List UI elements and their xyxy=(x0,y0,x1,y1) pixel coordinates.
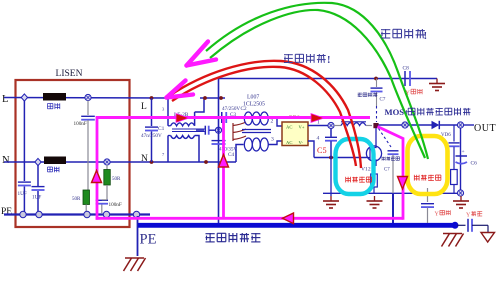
label PE (ground lead) xyxy=(140,232,157,248)
svg-text:C7: C7 xyxy=(380,98,386,103)
terminal label L (mains) xyxy=(2,94,8,105)
dashed line drain to C7 xyxy=(379,129,392,148)
red inductive-coupling curve 1 xyxy=(169,61,361,168)
label OUT xyxy=(474,123,496,134)
magenta arrow upper (to filter) xyxy=(187,42,217,66)
vertical PE wire x218 xyxy=(218,79,220,225)
parasitic inductor in +rail xyxy=(334,122,372,126)
magenta noise path right vertical xyxy=(378,127,404,220)
wire to diode xyxy=(408,124,432,126)
wire bridge V+ out xyxy=(308,120,328,126)
reference ground plate (thick blue bar) xyxy=(138,222,459,229)
capacitor C1 across L-N xyxy=(141,98,165,162)
cyan highlight ellipse (inductive coupling zone) xyxy=(336,139,374,194)
outlined up-arrow on LISN vertical xyxy=(92,171,102,183)
magenta noise path bottom rail xyxy=(96,217,403,220)
label 47/250V C2 xyxy=(222,106,247,112)
choke LF-2B core xyxy=(172,129,205,132)
wire L007 pin2 to bridge xyxy=(268,118,281,126)
svg-text:OUT: OUT xyxy=(474,123,496,134)
svg-text:V12: V12 xyxy=(361,167,371,173)
resistor 50R (L branch, green) xyxy=(72,120,90,213)
label L007 xyxy=(247,95,259,101)
load resistor xyxy=(451,170,458,194)
wire to OUT xyxy=(464,124,474,126)
junction dot C5 bottom xyxy=(329,156,333,160)
wire choke bottom right to N rail xyxy=(195,136,199,163)
wire DC- rail y157 xyxy=(314,157,367,159)
svg-text:PE: PE xyxy=(140,232,157,248)
earth triangle symbol xyxy=(481,233,495,243)
wire C5 node down to ground xyxy=(330,158,332,197)
external Y-capacitor xyxy=(468,219,488,232)
label 电容耦合 (red, in yellow zone) xyxy=(414,175,441,181)
node X bottom out xyxy=(457,190,463,196)
label 感性耦合! xyxy=(284,54,331,66)
label Y电容 (bottom left) xyxy=(435,210,451,217)
svg-text:L007: L007 xyxy=(247,95,259,101)
terminal label N (mains) xyxy=(2,155,10,166)
junction dot C1-L xyxy=(150,96,154,100)
label MOS+散热器分布电容 xyxy=(385,107,471,117)
PE rail node 4 xyxy=(103,211,109,217)
svg-text:!: ! xyxy=(424,30,428,42)
output cap branch xyxy=(449,125,460,170)
wire PE drop to earth xyxy=(137,216,139,256)
output ground symbol xyxy=(453,196,469,208)
svg-text:L: L xyxy=(141,102,147,112)
junction dot C1-N xyxy=(150,160,154,164)
diode VD6 xyxy=(432,121,458,129)
PE rail node 5 (outside box) xyxy=(133,211,139,217)
magenta arrow lower (to L input) xyxy=(167,81,194,98)
red inductive-coupling curve 2 xyxy=(172,67,356,166)
wire top-rail y118 under magenta xyxy=(204,117,243,119)
capacitor 1UF from N xyxy=(32,165,45,213)
svg-text:+: + xyxy=(462,149,465,155)
label BD6 xyxy=(289,115,300,121)
wire plate to external Y-cap xyxy=(457,224,466,226)
svg-text:V+: V+ xyxy=(299,125,305,130)
choke LF-2B bottom winding xyxy=(168,136,195,139)
resistor 50R (N branch, green) xyxy=(104,165,121,185)
node junction L rail mid xyxy=(85,94,91,100)
label 电感耦合 (red, in cyan zone) xyxy=(346,177,372,183)
terminal label PE (mains) xyxy=(1,207,12,217)
MOSFET V12 xyxy=(366,128,381,166)
choke L007 bottom winding xyxy=(244,138,268,151)
wire drain node to right node xyxy=(379,124,403,126)
choke LF-2B top winding xyxy=(168,123,195,126)
magenta noise path top rail xyxy=(97,116,370,119)
inductor 高阻 N-line (black box) xyxy=(44,157,66,173)
junction dot L rail x204 xyxy=(203,96,207,100)
earth ground symbol (PE) xyxy=(124,258,146,271)
label 参考接地板 xyxy=(206,233,261,242)
capacitor C2 series small xyxy=(196,126,216,135)
capacitor 1UF from L xyxy=(18,101,31,213)
bridge pin labels AC V+ AC V- xyxy=(286,125,305,146)
svg-text:Y: Y xyxy=(466,213,471,219)
drain node (dark red square) xyxy=(373,123,378,128)
svg-text:C4: C4 xyxy=(228,152,234,158)
svg-text:100nF: 100nF xyxy=(74,121,87,127)
svg-text:N: N xyxy=(141,154,148,164)
yellow highlight ellipse (capacitive coupling zone) xyxy=(408,136,448,194)
svg-text:V-: V- xyxy=(299,140,304,145)
svg-text:N: N xyxy=(2,155,10,166)
label Y电容 (bottom right) xyxy=(466,211,482,218)
electrolytic C6 xyxy=(456,149,478,167)
primary ground symbol xyxy=(367,196,383,208)
label N (PSU input) xyxy=(141,152,165,164)
svg-text:MOS+: MOS+ xyxy=(385,107,410,117)
wire PE rail xyxy=(4,213,150,215)
node X drain-right (405,124.5) xyxy=(402,122,408,128)
output vertical xyxy=(460,128,462,190)
label Y电容 (top) xyxy=(406,89,423,97)
svg-text:100nF: 100nF xyxy=(109,202,122,208)
wire L007 pin3 to bridge xyxy=(268,141,281,145)
junction dot N rail x206 xyxy=(204,160,208,164)
svg-text:LISEN: LISEN xyxy=(56,69,83,79)
green capacitive-coupling curve 2 xyxy=(210,10,425,158)
wire L007 bottom left to N xyxy=(236,145,244,163)
svg-text:47n/250V: 47n/250V xyxy=(141,133,162,139)
junction dot L rail x218 xyxy=(219,96,223,100)
inductor 高阻 L-line (black box) xyxy=(43,93,66,109)
svg-text:Y: Y xyxy=(435,212,440,218)
svg-text:C8: C8 xyxy=(403,66,410,72)
capacitor C3 series on y118 line xyxy=(222,112,237,123)
magenta noise path left vertical xyxy=(96,116,99,220)
node X at (218.5,130) xyxy=(215,127,221,133)
capacitor 100nF (N branch) xyxy=(96,185,122,213)
junction dot top line xyxy=(374,77,378,81)
red arrow right on magenta rail 2 xyxy=(311,114,324,123)
pin 2 label xyxy=(271,119,274,125)
wire N terminal rise to choke xyxy=(167,136,169,163)
svg-text:3: 3 xyxy=(271,137,274,143)
magenta noise path mid vertical xyxy=(222,118,225,219)
LISN enclosure box xyxy=(16,80,130,227)
svg-text:L: L xyxy=(2,94,8,105)
top-right ground symbol xyxy=(429,79,445,91)
svg-text:1UF: 1UF xyxy=(18,191,27,197)
label VD6 xyxy=(441,133,451,138)
capacitor C7 (MOS-heatsink) xyxy=(382,151,400,225)
node on N rail for 50R branch xyxy=(104,159,110,165)
svg-text:AC: AC xyxy=(286,140,292,145)
svg-text:50R: 50R xyxy=(112,177,121,182)
svg-text:C1: C1 xyxy=(158,126,165,132)
pin 3 label xyxy=(271,137,274,143)
common-mode choke LF-2B label xyxy=(174,112,189,118)
svg-text:C5: C5 xyxy=(317,146,327,155)
secondary bottom rail xyxy=(323,192,461,194)
node on L rail for 1uF branch xyxy=(21,94,27,101)
choke L007 top winding xyxy=(244,112,268,125)
source resistor of V12 xyxy=(371,161,378,193)
outlined up-arrow on mid vertical xyxy=(219,155,229,168)
capacitor C7' distributed xyxy=(371,79,383,123)
svg-text:C7: C7 xyxy=(384,168,390,173)
choke L007 left lead xyxy=(237,117,244,119)
label L (PSU input) xyxy=(141,102,165,112)
wire parasitic top line y78 xyxy=(219,78,438,80)
label 容性耦合! xyxy=(381,29,427,42)
primary ground under C5 xyxy=(323,196,339,208)
PE rail node 2 xyxy=(36,211,42,217)
svg-text:1UF: 1UF xyxy=(32,195,41,201)
choke L007 core xyxy=(242,130,271,133)
wire L rail xyxy=(4,97,168,100)
outlined down-arrow on right vertical xyxy=(398,177,408,190)
label 分布电容 C7 xyxy=(358,93,386,103)
node X at OUT xyxy=(457,122,463,128)
PE rail node 1 xyxy=(20,211,26,217)
node X at bridge+ (331,125.5) xyxy=(328,122,334,128)
capacitor C4 on x218 xyxy=(212,141,238,158)
svg-text:C6: C6 xyxy=(471,161,478,167)
label V12 xyxy=(361,167,371,173)
label 1CL2505 xyxy=(243,102,265,108)
capacitor 100nF (L branch) xyxy=(74,101,95,128)
capacitor C8 on top line xyxy=(403,66,411,87)
wire L terminal drop to choke xyxy=(167,98,169,126)
wire L rail right part xyxy=(200,97,225,99)
svg-text:AC: AC xyxy=(286,125,292,130)
node on N rail for 1uF branch xyxy=(35,158,41,165)
wire node218 stub left xyxy=(209,129,216,131)
heatsink hatch symbol (dark red) xyxy=(233,122,246,141)
svg-text:1CL2505: 1CL2505 xyxy=(243,102,265,108)
hatch ground under plate xyxy=(442,234,464,247)
PE rail node 3 xyxy=(84,211,90,217)
bridge rectifier BD6 (yellow box) xyxy=(282,122,308,146)
outlined left-arrow on bottom rail xyxy=(283,213,294,224)
svg-text:50R: 50R xyxy=(72,197,81,202)
svg-text:4: 4 xyxy=(317,136,320,142)
wire choke top right up to rail xyxy=(195,98,204,126)
label LISEN xyxy=(56,69,83,79)
Y-capacitor from secondary to plate xyxy=(421,188,434,223)
red arrow right on magenta rail 1 xyxy=(176,114,189,123)
wire bridge V- out down xyxy=(308,136,320,158)
wire N rail xyxy=(4,161,236,163)
svg-text:2: 2 xyxy=(271,119,274,125)
capacitor C5 bulk xyxy=(317,129,337,158)
svg-text:!: ! xyxy=(327,55,331,66)
green capacitive-coupling curve 1 xyxy=(206,3,428,159)
